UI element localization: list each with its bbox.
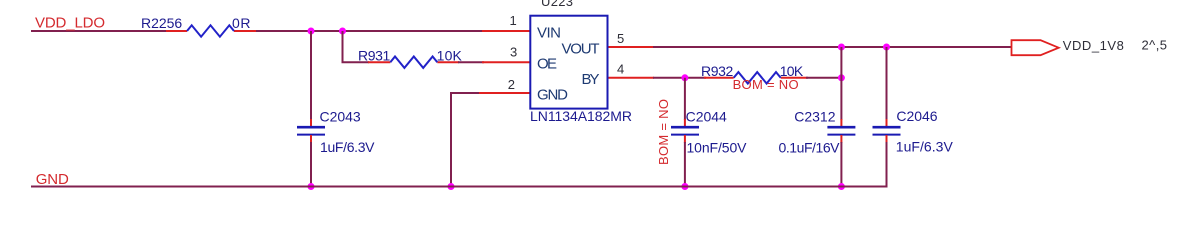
pin number 1 [510, 13, 517, 28]
wire C2043 to GND [310, 142, 312, 187]
svg-text:C2046: C2046 [896, 108, 937, 124]
resistor R932 BOM = NO note [733, 77, 799, 92]
resistor R932 zigzag [734, 72, 781, 83]
wire VOUT net to port [653, 46, 1012, 48]
junction node GND / C2043 [308, 183, 315, 190]
resistor R931 pin stubs [368, 61, 459, 63]
wire R931 to OE pin [458, 61, 484, 63]
capacitor C2043 designator [320, 108, 361, 124]
IC U1 pin 4 stub [608, 77, 655, 79]
IC U223 designator [541, 0, 573, 9]
wire C2044 to GND [684, 142, 686, 187]
port sheet reference 2^,5 [1142, 38, 1168, 53]
svg-text:U223: U223 [541, 0, 573, 9]
svg-text:2^,5: 2^,5 [1142, 38, 1168, 53]
IC U1 pin 2 stub [478, 92, 530, 94]
wire branch down to R931 [343, 31, 370, 62]
wire C2044 branch down [684, 78, 686, 120]
resistor R932 pin stubs [704, 77, 808, 79]
svg-text:R932: R932 [701, 63, 734, 79]
capacitor C2044 BOM = NO note rotated [656, 99, 671, 165]
svg-text:BOM = NO: BOM = NO [733, 77, 799, 92]
junction node VDD_LDO / C2043 [308, 28, 315, 35]
svg-text:GND: GND [537, 86, 568, 103]
capacitor C2044 designator [686, 109, 727, 125]
svg-text:BY: BY [582, 71, 600, 88]
svg-text:C2043: C2043 [320, 108, 361, 124]
junction node GND / C2312 [838, 183, 845, 190]
svg-text:0R: 0R [232, 15, 251, 31]
wire C2312 to GND [840, 142, 842, 187]
pin number 2 [508, 77, 515, 92]
resistor R931 designator [358, 48, 391, 64]
svg-text:C2044: C2044 [686, 109, 727, 125]
resistor R2256 designator [141, 15, 182, 31]
pin number 4 [617, 62, 624, 77]
svg-text:4: 4 [617, 62, 624, 77]
svg-text:GND: GND [36, 171, 69, 188]
capacitor C2046 top pin stub [886, 119, 888, 127]
net label GND [36, 171, 69, 188]
capacitor C2044 value [687, 140, 748, 156]
capacitor C2312 bottom pin stub [840, 135, 842, 143]
IC U1 pin 1 stub [482, 30, 530, 32]
capacitor C2044 bottom pin stub [684, 135, 686, 143]
resistor R931 zigzag [390, 57, 437, 68]
svg-text:0.1uF/16V: 0.1uF/16V [779, 140, 841, 156]
capacitor C2044 top pin stub [684, 119, 686, 127]
wire C2312 branch vertical from VOUT [840, 47, 842, 120]
resistor R932 designator [701, 63, 734, 79]
svg-text:BOM = NO: BOM = NO [656, 99, 671, 165]
svg-text:VIN: VIN [537, 25, 561, 42]
wire GND bottom rail [31, 186, 888, 188]
svg-text:R931: R931 [358, 48, 391, 64]
pin name VIN [537, 25, 561, 42]
pin name GND [537, 86, 568, 103]
svg-text:3: 3 [510, 44, 517, 59]
capacitor C2046 designator [896, 108, 937, 124]
port VDD_1V8 symbol [1012, 40, 1059, 55]
resistor R932 value 10K [780, 63, 804, 79]
svg-text:R2256: R2256 [141, 15, 182, 31]
svg-text:LN1134A182MR: LN1134A182MR [530, 108, 632, 124]
pin name BY [582, 71, 600, 88]
port label VDD_1V8 [1063, 38, 1124, 53]
pin number 3 [510, 44, 517, 59]
junction node GND / C2044 [681, 183, 688, 190]
capacitor C2043 bottom pin stub [310, 135, 312, 143]
wire GND pin to bottom rail [451, 93, 479, 187]
capacitor C2044 plates [671, 127, 699, 134]
IC U1 pin 5 stub [608, 46, 655, 48]
wire BY pin to C2044 junction [653, 77, 706, 79]
capacitor C2312 top pin stub [840, 119, 842, 127]
svg-text:10nF/50V: 10nF/50V [687, 140, 748, 156]
pin name OE [537, 56, 557, 73]
svg-text:1: 1 [510, 13, 517, 28]
net label VDD_LDO [35, 15, 105, 32]
capacitor C2046 bottom pin stub [886, 135, 888, 143]
svg-text:VOUT: VOUT [562, 40, 600, 57]
junction node BY / C2044 [681, 74, 688, 81]
capacitor C2043 value [320, 139, 375, 155]
capacitor C2312 value [779, 140, 841, 156]
svg-text:OE: OE [537, 56, 557, 73]
junction node GND rail / IC GND [448, 183, 455, 190]
junction node R932 / C2312 vertical [838, 74, 845, 81]
pin name VOUT [562, 40, 600, 57]
svg-text:1uF/6.3V: 1uF/6.3V [896, 139, 954, 155]
junction node VDD_LDO / R931 branch [339, 28, 346, 35]
svg-text:2: 2 [508, 77, 515, 92]
svg-text:C2312: C2312 [794, 109, 835, 125]
IC U223 part number LN1134A182MR [530, 108, 632, 124]
wire down to C2043 [310, 31, 312, 120]
wire C2046 to GND corner [886, 142, 888, 188]
junction node VOUT / C2312 [838, 44, 845, 51]
svg-text:VDD_1V8: VDD_1V8 [1063, 38, 1124, 53]
wire R932 to C2312 branch [806, 77, 841, 79]
capacitor C2046 value [896, 139, 954, 155]
resistor R2256 pin stubs [166, 30, 256, 32]
resistor R2256 zigzag [187, 25, 234, 36]
svg-text:1uF/6.3V: 1uF/6.3V [320, 139, 375, 155]
resistor R2256 value 0R [232, 15, 251, 31]
capacitor C2046 plates [873, 127, 901, 134]
IC U1 pin 3 stub [482, 61, 530, 63]
svg-text:VDD_LDO: VDD_LDO [35, 15, 105, 32]
junction node VOUT / C2046 [883, 44, 890, 51]
wire VDD_LDO net top horizontal [31, 30, 484, 32]
resistor R931 value 10K [437, 48, 463, 64]
pin number 5 [617, 31, 624, 46]
capacitor C2043 plates [297, 127, 325, 134]
IC U223 body box [530, 16, 607, 109]
capacitor C2312 plates [827, 127, 855, 134]
svg-text:5: 5 [617, 31, 624, 46]
capacitor C2312 designator [794, 109, 835, 125]
wire C2046 branch vertical from VOUT [886, 47, 888, 120]
capacitor C2043 top pin stub [310, 119, 312, 127]
